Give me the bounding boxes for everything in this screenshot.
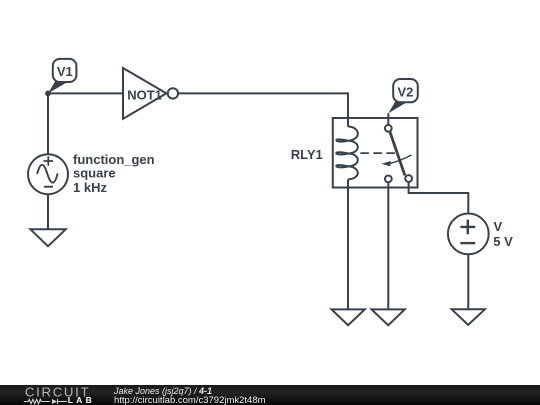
net label V1	[48, 59, 76, 94]
ground under voltage source	[452, 309, 485, 325]
function_gen value labels	[73, 152, 155, 195]
voltage source labels V 5V	[493, 219, 513, 249]
svg-text:RLY1: RLY1	[291, 147, 323, 162]
voltage source V 5V	[448, 214, 489, 255]
svg-text:1 kHz: 1 kHz	[73, 180, 107, 195]
ground under relay coil	[332, 309, 365, 325]
relay switch blade	[390, 132, 405, 176]
svg-text:5 V: 5 V	[493, 234, 513, 249]
wire NOT1 output to relay coil	[178, 93, 348, 126]
wire function_gen to ground	[47, 194, 49, 229]
svg-text:square: square	[73, 165, 116, 180]
wire relay coil to ground	[347, 180, 349, 310]
wire node down to function_gen	[47, 93, 49, 154]
wire voltage source to ground	[467, 254, 469, 309]
net label V2	[388, 79, 418, 113]
relay NO terminal	[405, 175, 412, 182]
footer credit text	[114, 386, 212, 396]
relay switch common terminal	[385, 125, 392, 132]
relay NC terminal	[385, 176, 392, 183]
relay switch arrow	[391, 155, 412, 163]
svg-text:V1: V1	[57, 64, 73, 79]
CircuitLab logo	[0, 385, 110, 405]
inverter NOT1	[123, 68, 178, 119]
footer bar	[0, 385, 540, 405]
relay RLY1	[291, 118, 418, 188]
svg-text:V2: V2	[397, 84, 413, 99]
svg-text:NOT1: NOT1	[127, 87, 162, 102]
voltage source V1 function_gen	[28, 154, 68, 194]
wire relay NC terminal to ground	[387, 182, 389, 309]
ground under function_gen	[30, 229, 65, 246]
wire node to NOT1 input	[48, 92, 123, 94]
footer url text	[114, 395, 266, 405]
wire relay common up to V2	[387, 113, 389, 125]
ground under relay NC terminal	[372, 309, 405, 325]
node V1 junction dot	[45, 91, 51, 97]
relay actuation dashed line	[360, 152, 395, 154]
svg-text:V: V	[494, 219, 503, 234]
wire relay NO terminal to voltage source V	[409, 182, 469, 214]
svg-text:LAB: LAB	[68, 394, 95, 404]
